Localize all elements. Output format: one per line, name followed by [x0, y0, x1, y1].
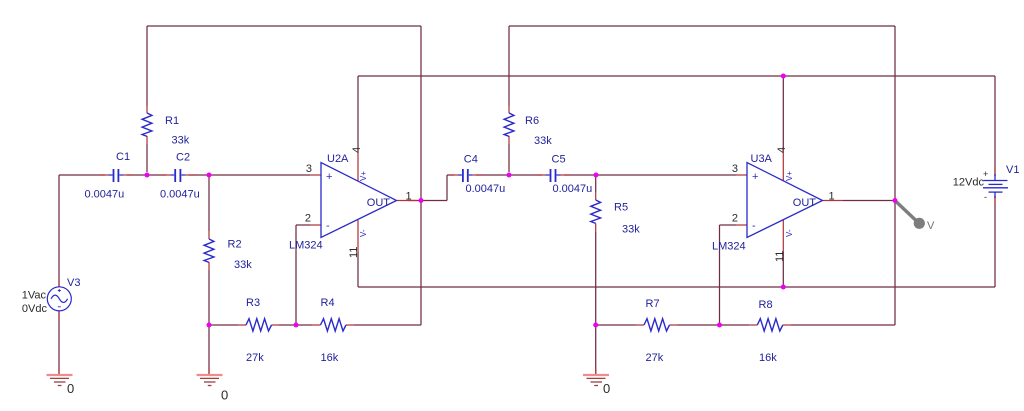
wire riser x147 — [146, 26, 148, 106]
svg-text:R4: R4 — [321, 297, 335, 309]
node C2/R2 — [207, 173, 212, 178]
op-amp U2A — [321, 163, 397, 238]
svg-text:+: + — [752, 171, 758, 183]
R5 stubs — [595, 192, 597, 232]
node V+ U3A — [781, 74, 786, 79]
wire top rail stage2 — [509, 25, 895, 27]
red pin stubs — [59, 106, 995, 375]
svg-text:OUT: OUT — [793, 197, 817, 209]
U3A pin stubs — [736, 175, 843, 225]
R4 stubs — [312, 324, 354, 326]
source V3 — [47, 287, 71, 311]
svg-text:V: V — [927, 220, 935, 232]
svg-text:C1: C1 — [116, 151, 130, 163]
svg-text:3: 3 — [732, 163, 738, 175]
svg-text:27k: 27k — [646, 352, 664, 364]
wire below R1 — [146, 144, 148, 172]
svg-text:LM324: LM324 — [289, 240, 323, 252]
wire U2A out to corner — [408, 200, 447, 202]
svg-text:0: 0 — [603, 381, 610, 396]
U2A pin stubs — [310, 175, 417, 225]
op-amp U3A — [747, 163, 823, 238]
R2 stubs — [208, 231, 210, 270]
node R5/R7 — [593, 323, 598, 328]
resistor R8 — [757, 319, 783, 331]
wire bottom rail2 a — [596, 324, 636, 326]
wire pin2 stub run — [296, 224, 310, 226]
battery stubs — [994, 168, 996, 204]
svg-text:V+: V+ — [359, 171, 368, 181]
svg-text:V1: V1 — [1006, 164, 1019, 176]
R6 stubs — [508, 106, 510, 144]
svg-text:C4: C4 — [464, 154, 478, 166]
resistor R3 — [246, 319, 272, 331]
svg-text:-: - — [984, 192, 987, 202]
wire pin2 stub run U3A — [720, 224, 737, 226]
R8 stubs — [749, 324, 791, 326]
C5 stubs — [537, 174, 570, 176]
battery V1 — [983, 174, 1008, 198]
wire to C4 — [447, 174, 454, 176]
svg-text:OUT: OUT — [367, 197, 391, 209]
ground 0 (V3) — [47, 375, 75, 396]
svg-text:33k: 33k — [622, 224, 640, 236]
wire below R6 — [508, 144, 510, 172]
node C5/R5 — [594, 173, 599, 178]
wire V3 to gnd — [58, 311, 60, 375]
svg-text:R3: R3 — [246, 297, 260, 309]
C2 stubs — [161, 174, 195, 176]
resistor R2 — [204, 239, 214, 262]
svg-text:R5: R5 — [614, 202, 628, 214]
wire C5 to pin3 U3A — [564, 174, 736, 176]
wire riser x895 — [894, 26, 896, 325]
svg-text:-: - — [752, 220, 756, 232]
resistor R1 — [142, 113, 152, 136]
wire R4 to riser — [354, 324, 421, 326]
svg-text:33k: 33k — [534, 135, 552, 147]
svg-text:11: 11 — [348, 247, 360, 258]
resistor R6 — [504, 113, 514, 136]
V3 stubs — [58, 280, 60, 318]
svg-text:0.0047u: 0.0047u — [466, 183, 506, 195]
wire R7-R8 — [678, 324, 750, 326]
svg-text:R8: R8 — [759, 299, 773, 311]
wire pin2 riser x296 — [295, 225, 297, 325]
U2A pin11 stub — [357, 220, 359, 252]
gnd stubs — [59, 367, 596, 375]
node R3/R4 — [294, 323, 299, 328]
svg-text:4: 4 — [776, 147, 788, 153]
svg-text:2: 2 — [305, 213, 311, 225]
capacitor C1 — [109, 169, 124, 182]
node C1/R1 — [145, 173, 150, 178]
svg-text:1: 1 — [829, 190, 835, 202]
wire pin2 riser x719.5 — [719, 225, 721, 325]
wire corner up — [446, 175, 448, 201]
wire U3A pin4 upper — [782, 76, 784, 148]
wire battery top — [994, 76, 996, 176]
svg-text:V3: V3 — [67, 277, 80, 289]
svg-text:3: 3 — [306, 163, 312, 175]
ground 0 (stage2) — [583, 375, 610, 396]
svg-text:16k: 16k — [759, 352, 777, 364]
wire junction to R2 — [208, 175, 210, 231]
svg-text:0.0047u: 0.0047u — [160, 189, 200, 201]
svg-text:0.0047u: 0.0047u — [553, 183, 593, 195]
svg-text:1: 1 — [406, 190, 412, 202]
svg-text:LM324: LM324 — [712, 241, 746, 253]
capacitor C2 — [170, 169, 185, 182]
node V- U3A — [781, 285, 786, 290]
U3A pin4 stub — [782, 148, 784, 181]
svg-text:2: 2 — [732, 213, 738, 225]
svg-text:4: 4 — [351, 147, 363, 153]
wire R5 to gnd3 — [595, 232, 597, 375]
svg-text:-: - — [326, 220, 330, 232]
svg-text:R6: R6 — [525, 115, 539, 127]
U3A pin11 stub — [782, 220, 784, 252]
svg-text:U2A: U2A — [327, 153, 349, 165]
svg-text:U3A: U3A — [751, 153, 773, 165]
svg-text:33k: 33k — [234, 259, 252, 271]
wire bottom rail1 a — [209, 324, 238, 326]
wire input top — [59, 174, 105, 176]
svg-text:0Vdc: 0Vdc — [22, 303, 48, 315]
wire riser x509 upper — [508, 26, 510, 106]
node U3A out — [893, 198, 898, 203]
wire riser x421 — [420, 26, 422, 325]
probe V marker — [897, 202, 936, 232]
capacitor C5 — [546, 169, 561, 182]
labels black — [22, 147, 989, 315]
resistor R4 — [321, 319, 347, 331]
C1 stubs — [99, 174, 133, 176]
svg-text:1Vac: 1Vac — [22, 290, 47, 302]
wire V+ rail — [358, 75, 995, 77]
svg-text:11: 11 — [774, 251, 786, 262]
wire C4 to C5 — [476, 174, 542, 176]
svg-text:+: + — [983, 169, 988, 179]
svg-text:33k: 33k — [172, 135, 190, 147]
capacitor C4 — [458, 169, 473, 182]
wire U2A pin11 lower — [357, 252, 359, 287]
ground 0 (stage1) — [197, 375, 229, 403]
svg-text:0: 0 — [67, 381, 74, 396]
resistor R7 — [644, 319, 670, 331]
svg-text:27k: 27k — [246, 352, 264, 364]
labels blue refs/values — [67, 115, 1019, 364]
wire input vertical — [58, 175, 60, 287]
wire U3A pin11 lower — [782, 252, 784, 287]
svg-text:R7: R7 — [646, 298, 660, 310]
svg-text:12Vdc: 12Vdc — [953, 177, 985, 189]
svg-text:C2: C2 — [176, 152, 190, 164]
wire R8 to riser — [791, 324, 895, 326]
svg-text:16k: 16k — [321, 352, 339, 364]
node R2/R3 — [207, 323, 212, 328]
wire U3A out — [843, 200, 895, 202]
wire U2A pin4 upper — [357, 76, 359, 148]
wire V- rail — [358, 286, 995, 288]
wire C1 to C2 — [127, 174, 166, 176]
wire C2 to pin3 — [189, 174, 310, 176]
svg-text:R2: R2 — [228, 239, 242, 251]
wire battery bottom — [994, 196, 996, 287]
node R7/R8 — [717, 323, 722, 328]
svg-text:V-: V- — [785, 229, 794, 237]
node U2A out — [419, 198, 424, 203]
svg-text:0: 0 — [221, 388, 228, 403]
svg-text:V+: V+ — [785, 171, 794, 181]
resistor R5 — [591, 200, 601, 223]
R3 stubs — [238, 324, 279, 326]
R7 stubs — [636, 324, 678, 326]
U2A pin4 stub — [357, 148, 359, 181]
svg-text:C5: C5 — [552, 154, 566, 166]
wire R2 to gnd2 — [208, 270, 210, 375]
svg-text:0.0047u: 0.0047u — [85, 189, 125, 201]
C4 stubs — [449, 174, 482, 176]
R1 stubs — [146, 106, 148, 144]
wire top feedback rail stage1 — [147, 25, 421, 27]
svg-text:V-: V- — [359, 229, 368, 237]
svg-text:+: + — [326, 171, 332, 183]
wire — [59, 26, 995, 375]
svg-text:R1: R1 — [165, 115, 179, 127]
wire R3-R4 — [279, 324, 312, 326]
node C4/R6 — [507, 173, 512, 178]
wire junction to R5 — [595, 175, 597, 192]
